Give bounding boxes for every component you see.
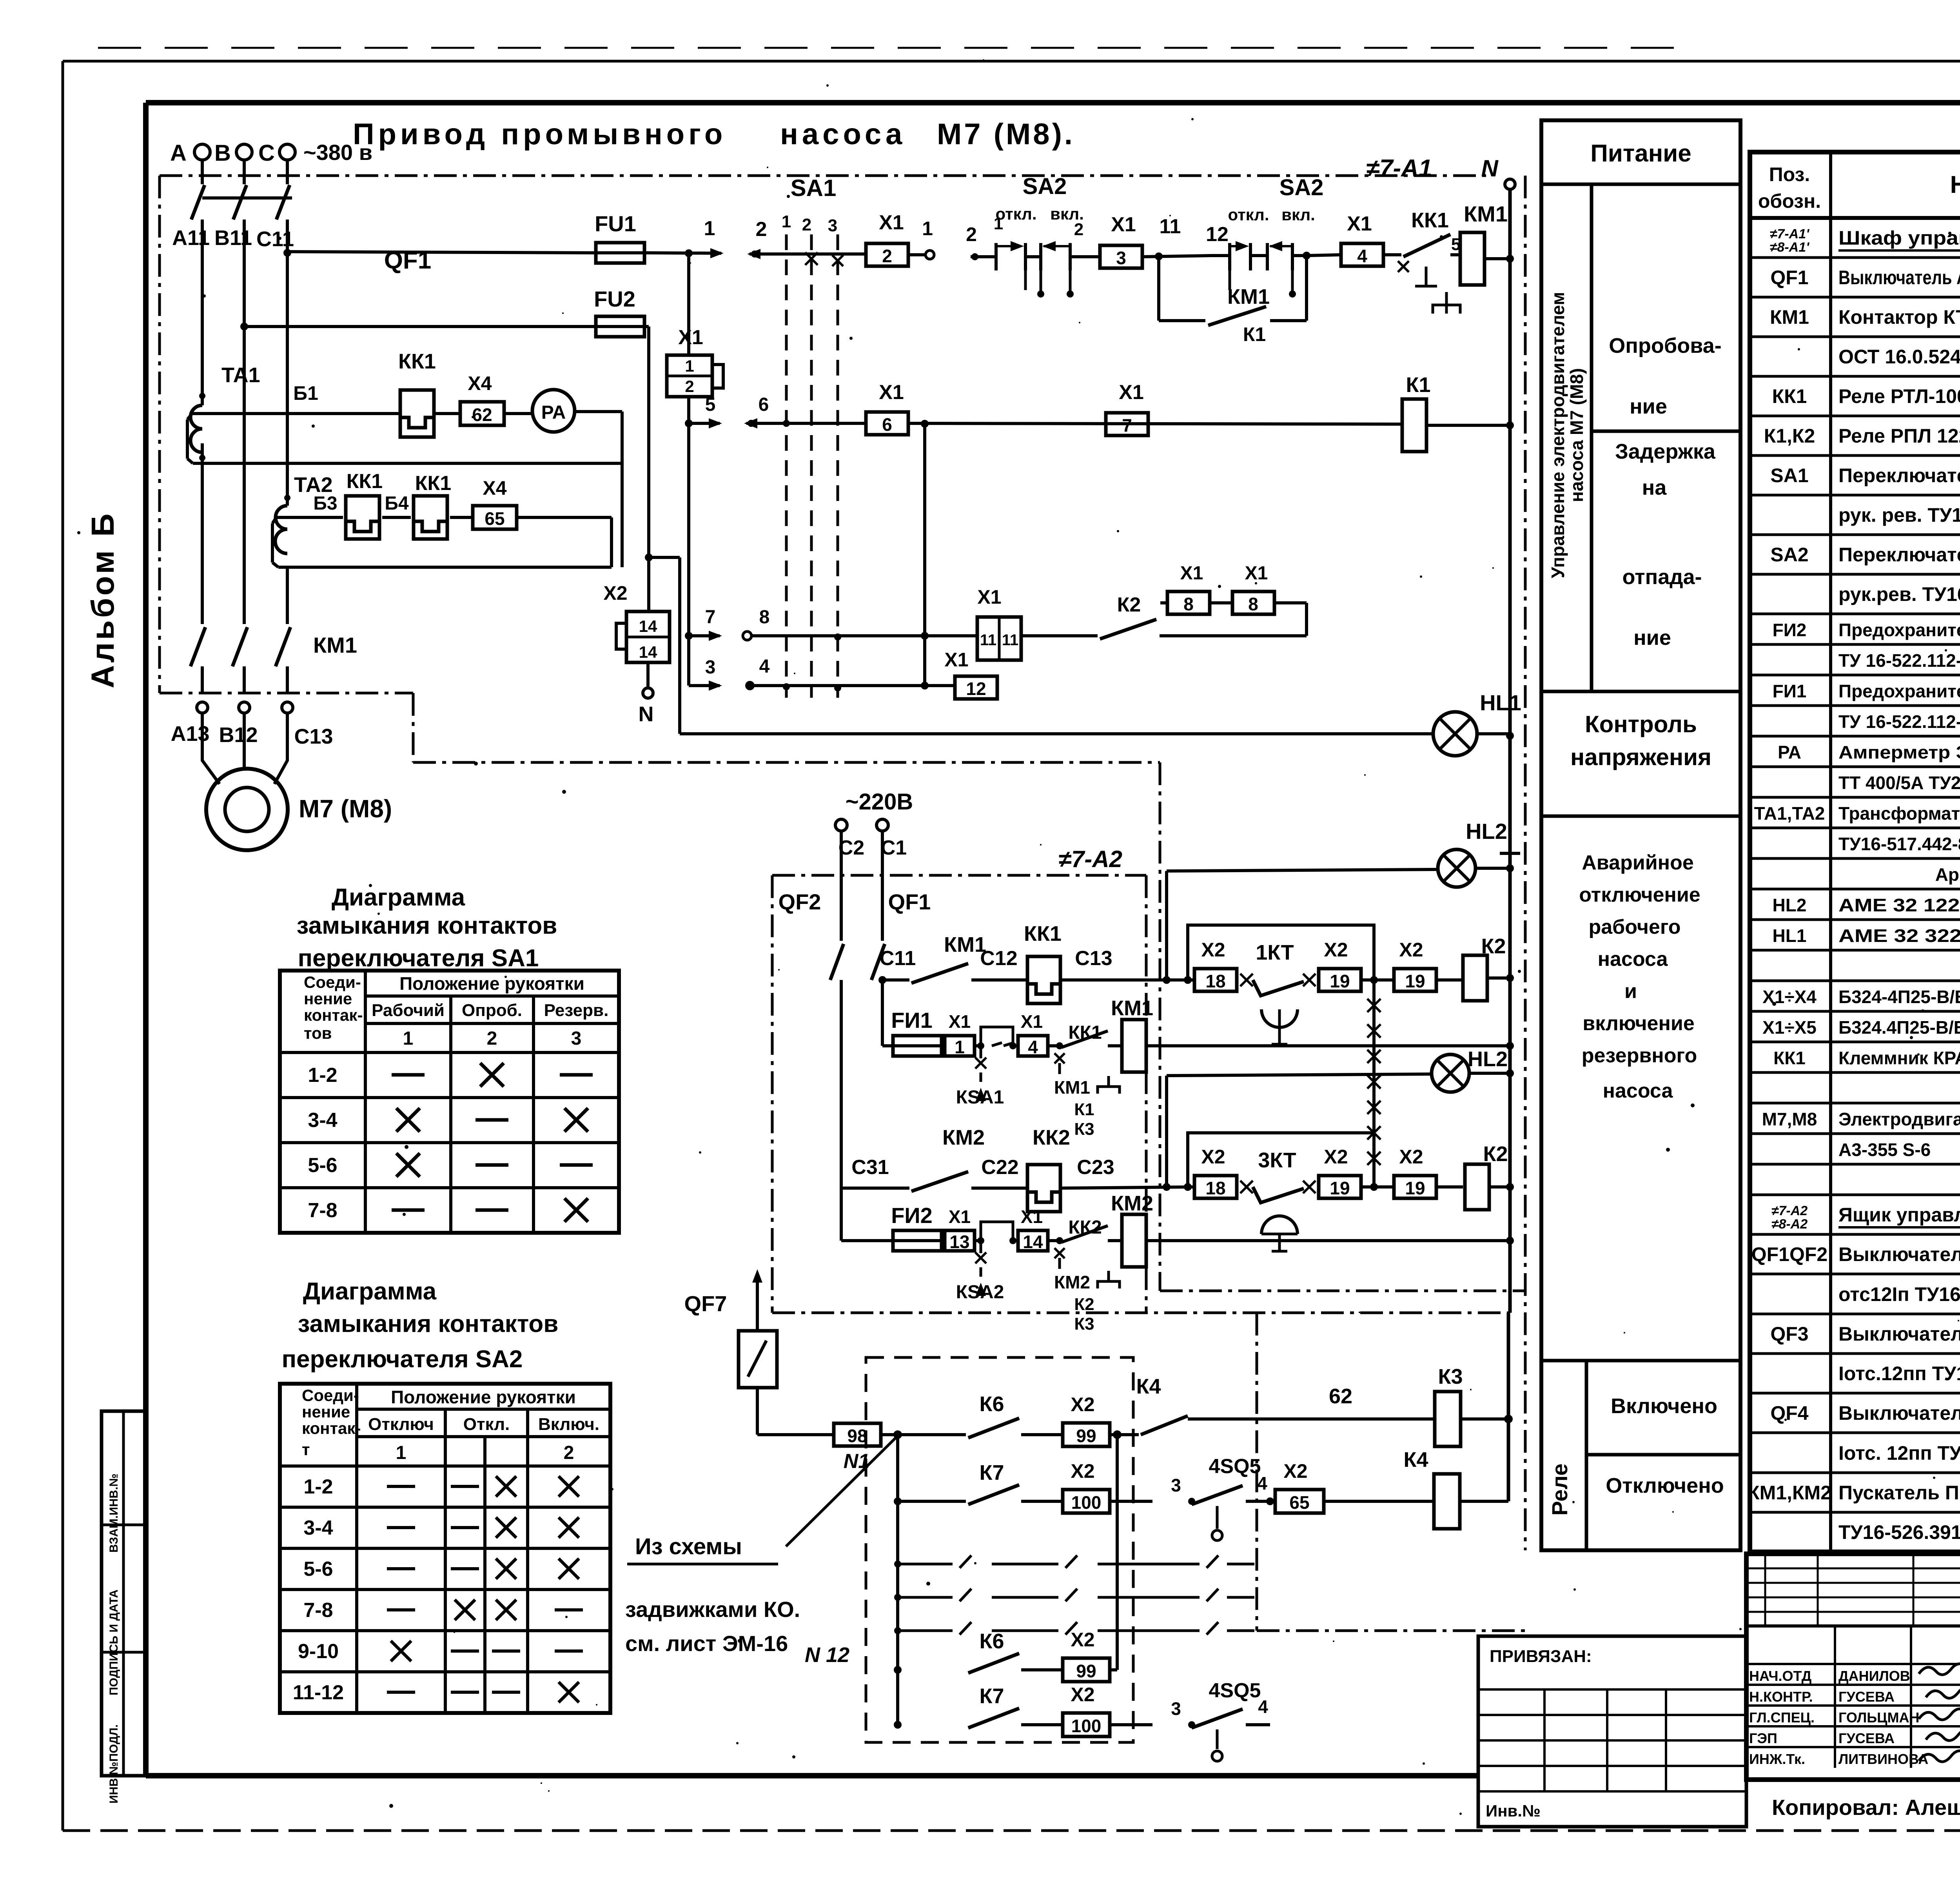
svg-text:HL2: HL2 [1468, 1047, 1508, 1071]
wire FU2 down to X2 connector [644, 327, 680, 734]
motor M7 (M8) [206, 769, 392, 850]
svg-text:К4: К4 [1404, 1448, 1428, 1472]
contactor aux contact KM1 (row C11-C13) [880, 933, 1028, 983]
svg-text:HL1: HL1 [1480, 690, 1521, 715]
svg-text:FU2: FU2 [594, 287, 635, 311]
svg-text:2: 2 [685, 377, 694, 396]
svg-text:ТУ16-526.391-79: ТУ16-526.391-79 [1838, 1521, 1960, 1543]
terminal X2 [19] (K2 feed) [1394, 939, 1463, 991]
svg-text:≠7-А2: ≠7-А2 [1771, 1203, 1808, 1218]
svg-text:4: 4 [1028, 1037, 1038, 1057]
svg-text:QF2: QF2 [779, 889, 821, 914]
svg-text:3: 3 [1171, 1475, 1181, 1495]
motor terminals A13 B12 C13 [171, 702, 333, 748]
svg-text:рабочего: рабочего [1588, 916, 1681, 938]
wire node N1 column [881, 1430, 966, 1729]
svg-text:КК1: КК1 [1024, 922, 1062, 945]
svg-text:1КТ: 1КТ [1256, 941, 1294, 964]
svg-text:Реле РПЛ 1220*4.U~220В ТУ16-52: Реле РПЛ 1220*4.U~220В ТУ16-523.554-78 [1838, 425, 1960, 447]
svg-text:≠7-А1': ≠7-А1' [1770, 227, 1810, 241]
dashed enclosure (valve circuits) [866, 1357, 1133, 1742]
spare contact row 1 (broken) [898, 1555, 1254, 1568]
svg-text:Х1: Х1 [1347, 212, 1372, 235]
svg-text:С1: С1 [881, 836, 907, 859]
wire C23 to 3KT group [1060, 1156, 1194, 1191]
relay contact K4 rising to row 62 [1117, 1375, 1211, 1435]
svg-text:К2: К2 [1481, 934, 1506, 958]
svg-text:ГУСЕВА: ГУСЕВА [1838, 1730, 1895, 1746]
svg-text:5: 5 [705, 394, 716, 415]
relay coil K2 (lower) [1465, 1142, 1514, 1210]
svg-text:С13: С13 [1075, 947, 1112, 970]
svg-text:К2: К2 [1117, 593, 1141, 616]
spare contact row 3 (broken) [898, 1622, 1254, 1635]
terminal X1 [8] (right) [1160, 563, 1274, 614]
relay coil K2 (upper) [1463, 934, 1514, 1001]
svg-text:12: 12 [966, 679, 986, 699]
svg-text:переключателя SА1: переключателя SА1 [298, 945, 539, 972]
svg-text:Х2: Х2 [1071, 1460, 1094, 1482]
title block: signatures (handwritten squiggles) [1919, 1664, 1960, 1762]
svg-text:Привод промывного: Привод промывного [353, 118, 726, 151]
svg-text:100: 100 [1071, 1492, 1102, 1513]
svg-text:Х1: Х1 [678, 326, 703, 349]
svg-text:Выключатель АЕ 2023-100У3 Iр 8: Выключатель АЕ 2023-100У3 Iр 8А [1838, 1323, 1960, 1345]
ammeter PA [532, 390, 575, 432]
inventory strip table (Взам.инв.№ / Подпись и дата / Инв.№ подл.) [102, 1411, 147, 1804]
relay contact K7 (row 4) [968, 1684, 1062, 1728]
jog up to X1 [8] [8] terminals [1274, 603, 1307, 636]
svg-text:Из схемы: Из схемы [635, 1534, 742, 1559]
svg-text:2: 2 [802, 215, 811, 234]
svg-text:99: 99 [1076, 1661, 1096, 1681]
svg-text:В11: В11 [214, 226, 252, 250]
svg-text:КМ2: КМ2 [942, 1126, 985, 1149]
svg-text:QF3: QF3 [1770, 1323, 1808, 1345]
title block: signature names [1749, 1668, 1928, 1767]
svg-text:КМ1: КМ1 [1111, 996, 1153, 1020]
thermal relay heater KK1 (TA2 loop, element 1) [346, 470, 383, 539]
node 11 and wire [1143, 215, 1211, 260]
svg-text:Опроб.: Опроб. [462, 1001, 522, 1020]
svg-text:Включено: Включено [1611, 1394, 1717, 1418]
svg-text:12: 12 [1206, 223, 1229, 246]
svg-text:Б3: Б3 [313, 493, 337, 514]
svg-text:ГУСЕВА: ГУСЕВА [1838, 1689, 1895, 1705]
signal lamp HL2 (upper) [1438, 819, 1514, 887]
terminal X2 [99] (row 3) [1063, 1435, 1117, 1682]
lower section boundary (dash-dot) [1257, 1313, 1525, 1631]
timer contact 1KT [1253, 941, 1316, 1044]
footer: Копировал [1772, 1795, 1960, 1820]
fuse FU2 [594, 287, 644, 337]
svg-text:Диаграмма: Диаграмма [332, 884, 465, 911]
svg-text:КМ1: КМ1 [1227, 285, 1270, 308]
wire C13 to 1KT group [1060, 947, 1194, 984]
svg-text:замыкания контактов: замыкания контактов [298, 1310, 559, 1337]
svg-text:8: 8 [759, 607, 770, 628]
svg-text:ТУ 16-522.112-74: ТУ 16-522.112-74 [1838, 711, 1960, 732]
svg-text:ПРИВЯЗАН:: ПРИВЯЗАН: [1490, 1647, 1592, 1666]
SA2 diagram table rows [293, 1475, 583, 1704]
title block main frame [1746, 1554, 1960, 1780]
wire phase C vertical [283, 249, 291, 624]
svg-text:Отключ: Отключ [368, 1415, 434, 1434]
svg-text:HL1: HL1 [1773, 925, 1807, 946]
terminal X1 [12] (row 3-4) [944, 649, 997, 699]
svg-text:SА1: SА1 [1770, 465, 1808, 486]
svg-text:QF1: QF1 [888, 889, 931, 914]
svg-text:3: 3 [571, 1028, 582, 1049]
svg-text:3: 3 [828, 216, 837, 235]
wire control row 1 from fuse FU1 [287, 252, 596, 253]
terminal X1 [8] (left) [1167, 563, 1232, 614]
svg-text:Реле: Реле [1547, 1463, 1572, 1515]
fuse FU1 [595, 211, 644, 263]
svg-text:КSА2: КSА2 [956, 1282, 1004, 1303]
svg-text:FИ2: FИ2 [1773, 620, 1807, 640]
thermal relay heater KK1 (TA1 loop) [398, 350, 436, 437]
svg-text:нение: нение [302, 1403, 350, 1421]
svg-text:Реле РТЛ-100В0*4 ТУ16-523.549-: Реле РТЛ-100В0*4 ТУ16-523.549-82 [1838, 385, 1960, 407]
supply label ~220 V [846, 789, 913, 815]
svg-text:7-8: 7-8 [303, 1599, 333, 1622]
contactor coil KM1 (row 1) [1450, 201, 1510, 285]
svg-text:N: N [639, 702, 654, 726]
svg-text:контак-: контак- [304, 1006, 363, 1024]
svg-text:≠8-А1': ≠8-А1' [1770, 240, 1810, 255]
svg-text:14: 14 [1023, 1232, 1043, 1252]
terminal X1 [4] (KM1 coil circuit) [1013, 1011, 1048, 1057]
breaker QF7 [684, 1269, 777, 1435]
svg-text:19: 19 [1405, 1178, 1425, 1198]
parts table content [1748, 227, 1960, 1543]
svg-text:Х1: Х1 [879, 211, 904, 234]
svg-text:К6: К6 [980, 1392, 1004, 1416]
svg-text:Соеди-: Соеди- [302, 1386, 359, 1404]
svg-text:Х1: Х1 [1021, 1011, 1043, 1032]
section header: Питание [1541, 140, 1740, 184]
bypass jumper and KSA1 cross [956, 1027, 1016, 1108]
thermal break contact KK1 (coil circuit) [1048, 1022, 1120, 1139]
svg-text:~220В: ~220В [846, 789, 913, 815]
contactor aux contact KM2 (row C31) [841, 1126, 1028, 1191]
svg-text:Х1: Х1 [944, 649, 968, 671]
svg-text:КМ1: КМ1 [1464, 201, 1508, 226]
SA1 diagram table rows [308, 1063, 593, 1222]
svg-text:1: 1 [403, 1028, 414, 1049]
svg-text:62: 62 [1329, 1384, 1352, 1408]
svg-text:Х4: Х4 [483, 477, 506, 499]
svg-text:Х2: Х2 [1071, 1684, 1094, 1706]
svg-text:3: 3 [705, 657, 716, 678]
svg-text:РА: РА [1778, 742, 1801, 762]
terminal X2 [100] (row 2) [1063, 1460, 1152, 1513]
circuit breaker QF1 (3-pole) [191, 185, 431, 274]
svg-text:КМ1: КМ1 [313, 633, 357, 657]
tap 7-8 row [685, 607, 977, 641]
svg-text:Х1: Х1 [977, 586, 1001, 608]
terminal X4 [65] [473, 477, 517, 529]
wire control row 2 from phase B [244, 325, 596, 328]
svg-text:тов: тов [304, 1024, 332, 1042]
svg-text:Контроль: Контроль [1585, 711, 1697, 737]
lamp HL2 (lower) feed [1167, 1074, 1432, 1187]
terminal X1 [2] [866, 211, 908, 266]
svg-text:≠7-А2: ≠7-А2 [1058, 846, 1122, 872]
terminals C2 C1 [835, 819, 907, 859]
svg-text:контак-: контак- [302, 1419, 361, 1437]
svg-text:Рабочий: Рабочий [372, 1001, 445, 1020]
terminal X1 [7] [1106, 381, 1148, 435]
section label: Контроль напряжения [1541, 711, 1740, 816]
svg-text:напряжения: напряжения [1570, 744, 1711, 770]
svg-text:насоса: насоса [1598, 948, 1668, 971]
label +7-A2 [1058, 846, 1122, 872]
terminal X2 [19] (1KT) [1319, 939, 1395, 991]
neutral terminal N [639, 662, 654, 726]
wire phase B vertical [240, 252, 248, 624]
svg-text:Откл.: Откл. [463, 1415, 510, 1434]
svg-text:Выключатель АЕ 2023-100У3 Iр 1: Выключатель АЕ 2023-100У3 Iр 1,6А [1838, 1402, 1960, 1424]
svg-text:3-4: 3-4 [308, 1109, 337, 1132]
svg-text:К7: К7 [980, 1684, 1004, 1708]
svg-text:Трансформатор ТК20-0,5У3I400/5: Трансформатор ТК20-0,5У3I400/5А [1838, 803, 1960, 824]
svg-text:К1: К1 [1074, 1100, 1094, 1119]
wire row 2 to X2 [65] [1270, 1500, 1274, 1503]
svg-text:SА2: SА2 [1770, 544, 1808, 566]
terminal X2 [99] (row 1) [1063, 1394, 1122, 1446]
wire phase A vertical [201, 252, 204, 624]
svg-text:М7 (М8).: М7 (М8). [937, 118, 1075, 151]
svg-text:ние: ние [1633, 626, 1671, 650]
svg-text:насоса: насоса [1603, 1080, 1673, 1102]
svg-text:КК1: КК1 [398, 350, 436, 373]
svg-text:ГЛ.СПЕЦ.: ГЛ.СПЕЦ. [1749, 1709, 1815, 1726]
fuse FU1 (KM1 coil circuit) [882, 1008, 942, 1056]
svg-text:3-4: 3-4 [303, 1517, 333, 1539]
svg-text:ТА1,ТА2: ТА1,ТА2 [1754, 803, 1825, 824]
svg-text:11-12: 11-12 [293, 1681, 344, 1704]
cabinet A2 boundary (dash-dot) [772, 875, 1508, 1313]
section label: Аварийное отключение рабочего насоса и включение резервного насоса [1541, 851, 1740, 1361]
TA2 secondary wire loop (Б3 Б4 Б5) [272, 493, 612, 567]
title block: revision grid [1746, 1554, 1960, 1626]
terminal X2 [65] [1275, 1460, 1324, 1513]
svg-text:65: 65 [485, 508, 505, 529]
svg-text:≠8-А2: ≠8-А2 [1771, 1217, 1808, 1232]
thermal relay heater KK1 (TA2 loop, element 2) [414, 472, 451, 539]
svg-text:18: 18 [1205, 971, 1225, 991]
svg-text:4SQ5: 4SQ5 [1209, 1679, 1261, 1702]
svg-text:Н.КОНТР.: Н.КОНТР. [1749, 1689, 1813, 1705]
spare contact row 2 (broken) [898, 1589, 1254, 1601]
svg-text:КК1: КК1 [1068, 1022, 1102, 1043]
relay contact K2 (row 7-8) [1021, 593, 1307, 639]
svg-text:С13: С13 [294, 725, 333, 748]
section label: Задержка на отпадание [1541, 440, 1740, 691]
limit switch 4SQ5 (row 4) [1171, 1679, 1270, 1761]
relay coil K4 [1325, 1448, 1508, 1501]
terminal X1 [3] [1100, 213, 1142, 268]
svg-text:С23: С23 [1077, 1156, 1114, 1179]
svg-text:18: 18 [1205, 1178, 1225, 1198]
svg-text:19: 19 [1330, 971, 1350, 991]
svg-text:6: 6 [882, 414, 892, 435]
svg-text:К2: К2 [1074, 1295, 1094, 1314]
svg-text:Клеммник КРА-104 ТУ16-523.549-: Клеммник КРА-104 ТУ16-523.549-78 [1838, 1048, 1960, 1068]
svg-text:отс12Iп ТУ16-522.064-75: отс12Iп ТУ16-522.064-75 [1838, 1283, 1960, 1305]
svg-text:НАЧ.ОТД: НАЧ.ОТД [1749, 1668, 1811, 1684]
svg-text:QF7: QF7 [684, 1291, 727, 1316]
phase input terminals A B C [170, 140, 295, 184]
svg-text:5-6: 5-6 [303, 1558, 333, 1580]
thermal break contact KK1 with reset [1384, 209, 1461, 314]
svg-text:Х2: Х2 [1201, 939, 1225, 961]
svg-text:ТТ 400/5А ТУ25.04-1308-76: ТТ 400/5А ТУ25.04-1308-76 [1838, 773, 1960, 793]
svg-text:7: 7 [705, 607, 716, 628]
rotated label: Реле [1547, 1361, 1586, 1550]
svg-text:N 12: N 12 [805, 1643, 849, 1667]
svg-text:Положение рукоятки: Положение рукоятки [391, 1387, 576, 1407]
svg-text:3: 3 [1116, 248, 1126, 268]
svg-text:рук. рев. ТУ16-526.047-74: рук. рев. ТУ16-526.047-74 [1838, 504, 1960, 526]
svg-text:QF4: QF4 [1770, 1402, 1808, 1424]
svg-text:3: 3 [1171, 1698, 1181, 1719]
SA1 diagram table grid [280, 971, 619, 1233]
svg-text:Х1: Х1 [1119, 381, 1144, 404]
svg-text:4: 4 [1258, 1697, 1268, 1717]
signal lamp HL1 [1433, 690, 1521, 756]
breaker QF2 [779, 831, 844, 1188]
note text: Из схемы [627, 1534, 778, 1564]
svg-text:9-10: 9-10 [298, 1640, 339, 1663]
svg-text:Х2: Х2 [1324, 1146, 1348, 1168]
svg-text:Арматура светосигнальная: Арматура светосигнальная [1935, 864, 1960, 885]
terminal X1 [6] [866, 381, 908, 435]
svg-text:Х2: Х2 [1324, 939, 1348, 961]
fuse FU2 (KM2 coil circuit) [841, 1188, 942, 1251]
svg-text:задвижками КО.: задвижками КО. [625, 1597, 800, 1622]
relay feed vertical [1507, 1313, 1510, 1501]
relay coil K1 [1402, 373, 1510, 452]
limit switch 4SQ5 (row 2) [1171, 1455, 1274, 1541]
svg-text:ние: ние [1630, 395, 1667, 418]
link column with crossing marks [1367, 980, 1381, 1184]
svg-text:и: и [1624, 980, 1637, 1003]
svg-text:КК1: КК1 [1411, 209, 1449, 232]
label 12 [1206, 223, 1229, 246]
parts table header [1750, 163, 1960, 218]
svg-text:КК1: КК1 [1773, 1048, 1806, 1068]
svg-text:7-8: 7-8 [308, 1199, 337, 1222]
svg-text:Положение рукоятки: Положение рукоятки [399, 973, 584, 994]
svg-text:SА2: SА2 [1279, 175, 1324, 200]
svg-text:N: N [1481, 155, 1499, 181]
svg-text:13: 13 [949, 1232, 969, 1252]
svg-text:5-6: 5-6 [308, 1154, 337, 1177]
wires from terminals to motor [202, 713, 287, 784]
svg-text:ОСТ 16.0.524.001-72: ОСТ 16.0.524.001-72 [1838, 346, 1960, 368]
svg-text:QF1: QF1 [1770, 267, 1808, 289]
wire signal lamp HL1 row [680, 732, 1433, 735]
terminal X1 [1] (KM1 coil circuit) [945, 1011, 981, 1057]
album label: Альбом Б [85, 511, 121, 688]
svg-text:4: 4 [1357, 246, 1367, 266]
timer contact 3KT [1253, 1149, 1316, 1251]
svg-text:HL2: HL2 [1773, 895, 1807, 915]
svg-text:С12: С12 [980, 947, 1017, 970]
svg-text:Контактор КТ6043СУ3 U~220В Вк2: Контактор КТ6043СУ3 U~220В Вк2з,2р. [1838, 306, 1960, 328]
vertical tie of TA loops [621, 463, 624, 567]
holding contact KM1/K1 bypass [1159, 252, 1310, 345]
title block: signature columns [1746, 1626, 1960, 1780]
svg-text:К7: К7 [980, 1461, 1004, 1484]
svg-text:Х1: Х1 [949, 1207, 971, 1227]
svg-text:ПредохранительПРС6У3-П Iпл.вст: ПредохранительПРС6У3-П Iпл.вст 1А [1838, 620, 1960, 640]
svg-text:Х1: Х1 [1021, 1207, 1043, 1227]
TA1 secondary wire Б1 (ammeter loop) [187, 382, 622, 463]
section label: Включено [1586, 1394, 1740, 1455]
svg-text:рук.рев. ТУ16-526.047-74: рук.рев. ТУ16-526.047-74 [1838, 583, 1960, 605]
svg-text:HL2: HL2 [1466, 819, 1507, 844]
label N12 [805, 1643, 849, 1667]
svg-text:FИ1: FИ1 [891, 1008, 933, 1032]
svg-text:Х2: Х2 [1201, 1146, 1225, 1168]
svg-text:ПОДПИСЬ И ДАТА: ПОДПИСЬ И ДАТА [107, 1590, 120, 1695]
svg-text:Поз.: Поз. [1769, 163, 1810, 185]
svg-text:КМ2: КМ2 [1054, 1272, 1090, 1292]
svg-text:Выключатель А3732ФУ3 U~380В Iр: Выключатель А3732ФУ3 U~380В Iр400А ТУ16-… [1838, 267, 1960, 289]
svg-text:обозн.: обозн. [1758, 190, 1821, 212]
svg-text:Б1: Б1 [293, 382, 318, 404]
contactor KM1 main contacts (3-pole) [191, 627, 357, 693]
svg-text:19: 19 [1330, 1178, 1350, 1198]
svg-text:65: 65 [1289, 1492, 1309, 1513]
svg-text:Iотс.12пп ТУ16-522.064-75: Iотс.12пп ТУ16-522.064-75 [1838, 1363, 1960, 1384]
svg-text:Х1: Х1 [1180, 563, 1203, 584]
contactor coil KM1 (A2) [1108, 996, 1514, 1072]
terminal X1 [11][11] [977, 586, 1021, 660]
wire row 5-6 to K1 coil [909, 420, 1402, 428]
svg-text:Пускатель ПМА 4200 U~220В, 40А: Пускатель ПМА 4200 U~220В, 40А [1838, 1482, 1960, 1504]
svg-text:2: 2 [966, 223, 977, 245]
wire row 62 to relay K3 [1211, 1384, 1435, 1419]
svg-text:А11: А11 [172, 226, 210, 250]
svg-text:Х2: Х2 [1399, 939, 1423, 961]
svg-text:Амперметр Э377кл 1.5предел изм: Амперметр Э377кл 1.5предел измер. 0÷600А [1838, 742, 1960, 762]
svg-text:Б4: Б4 [385, 493, 409, 514]
svg-text:Диаграмма: Диаграмма [303, 1278, 437, 1305]
right cabinet boundary (dash-dot) [1524, 176, 1527, 1550]
wire X1-2 to terminal 1 [909, 218, 934, 259]
svg-text:Х1: Х1 [879, 381, 904, 404]
SA1 diagram title [297, 884, 557, 972]
svg-text:ЛИТВИНОВА: ЛИТВИНОВА [1838, 1751, 1928, 1767]
svg-text:ГОЛЬЦМАН: ГОЛЬЦМАН [1838, 1709, 1919, 1726]
terminal X4 [62] [460, 372, 504, 425]
wire terminal 2 to SA2 bank 1 [966, 223, 992, 260]
svg-text:т: т [302, 1440, 310, 1459]
bypass bracket over 3KT [1188, 1133, 1378, 1191]
svg-text:Питание: Питание [1590, 140, 1691, 167]
svg-text:14: 14 [639, 617, 657, 635]
section label: Отключено [1606, 1474, 1724, 1497]
svg-text:1: 1 [994, 214, 1003, 233]
svg-text:Переключатель ПКУ3-12СУ3,Схема: Переключатель ПКУ3-12СУ3,Схема 2024 [1838, 465, 1960, 486]
svg-text:К6: К6 [980, 1629, 1004, 1653]
svg-text:отключение: отключение [1579, 884, 1700, 906]
